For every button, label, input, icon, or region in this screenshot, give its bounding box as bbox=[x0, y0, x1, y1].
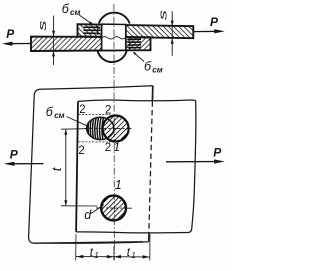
section line 2-2 lower (dashed) bbox=[79, 141, 111, 143]
bearing arrows in lower plate right block bbox=[126, 38, 141, 49]
upper plate section (from right), hatched bbox=[78, 24, 194, 38]
dimension s right: line across plate bbox=[171, 26, 173, 39]
svg-text:2: 2 bbox=[105, 105, 111, 117]
svg-text:см: см bbox=[54, 111, 64, 120]
dimension s right: lower arrow bbox=[171, 39, 173, 56]
lower plate top edge bbox=[40, 86, 153, 90]
lower plate section (from left), hatched bbox=[31, 37, 151, 51]
rivet axis centerline (runs through both views) bbox=[113, 4, 116, 260]
svg-text:б: б bbox=[144, 60, 152, 74]
crescent hatch strokes bbox=[87, 116, 104, 141]
rivet bottom head arc bbox=[97, 50, 126, 62]
rivet shank (white gap through both plates) bbox=[102, 24, 126, 51]
svg-text:1: 1 bbox=[94, 251, 98, 260]
lower plate bottom edge bbox=[34, 242, 149, 244]
svg-text:P: P bbox=[213, 146, 222, 160]
t1 dimension extension line middle (axis) bbox=[113, 246, 115, 261]
svg-text:2: 2 bbox=[105, 142, 111, 154]
upper (right) plate left edge bbox=[76, 101, 78, 232]
t1 dimension line bbox=[76, 256, 150, 258]
dimension s left: lower arrow bbox=[53, 51, 55, 65]
svg-text:2: 2 bbox=[78, 145, 84, 157]
upper plate top edge (wavy) bbox=[78, 100, 196, 101]
lower plate right edge visible bottom part bbox=[148, 232, 150, 242]
shank break wavy line bbox=[102, 37, 126, 39]
leader for sigma_cm top bbox=[79, 15, 93, 25]
lower plate right edge visible top part bbox=[151, 86, 153, 102]
svg-text:P: P bbox=[10, 148, 19, 162]
dimension s left: upper arrow bbox=[53, 16, 55, 36]
leader for sigma_cm bottom bbox=[134, 52, 145, 61]
shank bottom edge bbox=[101, 49, 128, 51]
bottom hole rivet circle (hatched) bbox=[101, 196, 126, 221]
lower (left) plate outline, plan view bbox=[29, 89, 143, 243]
svg-text:t: t bbox=[90, 247, 94, 259]
t1 arrows bbox=[76, 255, 83, 258]
rivet circle at top hole (hatched) bbox=[103, 116, 129, 142]
dimension s right: upper arrow bbox=[171, 11, 173, 25]
shank top edge bbox=[101, 23, 127, 25]
svg-text:1: 1 bbox=[131, 251, 135, 260]
svg-text:см: см bbox=[70, 8, 80, 17]
svg-text:2: 2 bbox=[79, 104, 85, 116]
t1 dimension extension line left bbox=[75, 234, 77, 261]
dimension t: vertical line with arrows bbox=[65, 129, 67, 205]
svg-text:d: d bbox=[84, 208, 92, 222]
svg-text:1: 1 bbox=[115, 178, 122, 192]
t extension line top bbox=[61, 128, 87, 131]
svg-text:s: s bbox=[157, 10, 169, 20]
svg-text:P: P bbox=[6, 27, 15, 41]
rivet top head arc bbox=[99, 13, 130, 24]
svg-text:P: P bbox=[210, 15, 219, 29]
top hole horizontal centerline bbox=[85, 127, 132, 129]
svg-text:s: s bbox=[36, 20, 49, 30]
bottom hole horizontal centerline bbox=[96, 207, 133, 209]
svg-text:б: б bbox=[46, 105, 54, 119]
t1 dimension extension line right bbox=[149, 234, 151, 261]
svg-text:t: t bbox=[49, 166, 64, 171]
bearing crescent ellipse (sigma_cm area) at top hole bbox=[87, 117, 114, 139]
upper plate right edge (wavy) bbox=[188, 101, 196, 233]
svg-text:1: 1 bbox=[113, 140, 120, 154]
t extension line bottom bbox=[61, 205, 98, 207]
dimension s left: line across plate bbox=[53, 36, 55, 51]
svg-text:б: б bbox=[62, 2, 70, 16]
svg-text:см: см bbox=[152, 65, 162, 74]
lower plate right edge hidden (dashed) bbox=[149, 101, 153, 232]
rivet shank left edge bbox=[101, 24, 103, 50]
bearing arrows in upper plate left block bbox=[84, 26, 102, 35]
upper plate bottom edge (wavy) bbox=[76, 232, 188, 233]
rivet shank right edge bbox=[125, 24, 127, 50]
section line 2-2 upper (dashed) bbox=[79, 113, 111, 115]
leader for plan sigma_cm bbox=[67, 117, 88, 126]
